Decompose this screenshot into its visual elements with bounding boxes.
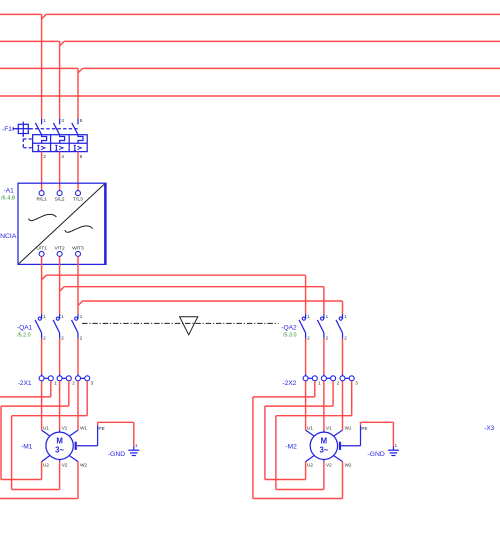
breaker F1 pole 2 contact blade <box>53 123 59 135</box>
contactor QA1 pole 2 fixed contact <box>56 317 59 320</box>
motor M1 circle <box>46 432 73 459</box>
svg-text:1: 1 <box>54 381 57 386</box>
wire L3 power rail <box>0 67 78 69</box>
motor M1 terminal U1 <box>42 430 50 436</box>
wire M1 loop B3-V2 <box>86 381 88 416</box>
motor M1 terminal W2 <box>69 456 78 462</box>
terminal 2X2:2 circles <box>323 374 325 376</box>
svg-text:V2: V2 <box>326 462 332 467</box>
mechanical interlock dash-dot link QA1-QA2 <box>82 322 279 324</box>
svg-text:PE: PE <box>361 426 367 431</box>
motor M1 terminal V1 <box>59 430 61 432</box>
motor M2 terminal U1 <box>306 430 315 436</box>
svg-text:1: 1 <box>61 314 64 319</box>
svg-text:V1: V1 <box>326 426 332 431</box>
svg-text:/5.2.0: /5.2.0 <box>17 332 31 338</box>
svg-text:U1: U1 <box>307 426 313 431</box>
svg-text:1: 1 <box>43 118 46 123</box>
svg-text:V/T2: V/T2 <box>55 246 65 252</box>
wire A1 output V/T2 down <box>59 257 61 314</box>
breaker F1 operator handle box <box>12 127 14 130</box>
wire M1 loop B2-U2 <box>68 381 70 406</box>
svg-text:/5.3.0: /5.3.0 <box>283 332 297 338</box>
svg-text:-GND: -GND <box>108 451 125 458</box>
svg-text:1: 1 <box>307 314 310 319</box>
wire N power rail <box>0 95 500 97</box>
contactor QA2 pole 2 blade <box>317 320 324 333</box>
svg-text:S/L2: S/L2 <box>55 197 65 203</box>
svg-text:-A1: -A1 <box>4 187 15 194</box>
wire tap L3 to F1 pin 5 <box>78 68 83 72</box>
wire M2 loop B3-V2 <box>351 381 353 416</box>
svg-text:V2: V2 <box>62 462 68 467</box>
svg-text:-2X1: -2X1 <box>18 380 32 387</box>
terminal 2X1:1 circles <box>41 374 43 376</box>
converter A1 box <box>18 183 106 264</box>
svg-text:-GND: -GND <box>367 451 384 458</box>
motor M2 PE bar <box>339 442 341 450</box>
svg-text:M: M <box>56 436 63 445</box>
mechanical interlock triangle symbol <box>180 317 198 335</box>
svg-text:/6.4.8: /6.4.8 <box>1 196 15 202</box>
converter A1 input terminal R/L1 <box>39 191 44 196</box>
svg-text:T/L3: T/L3 <box>73 197 83 203</box>
motor M2 terminal V1 <box>323 430 325 432</box>
svg-text:3: 3 <box>91 381 94 386</box>
svg-text:5: 5 <box>80 118 83 123</box>
svg-text:1: 1 <box>395 443 398 448</box>
wire QA2 pole 3 to terminal <box>342 339 344 374</box>
svg-text:2: 2 <box>61 335 64 340</box>
svg-text:R/L1: R/L1 <box>37 197 47 203</box>
wire L2 power rail <box>0 40 60 42</box>
wire M2 W1 feed <box>342 381 344 430</box>
converter A1 input AC sine symbol <box>29 214 57 220</box>
breaker F1 pole 2 magnetic trip I> <box>55 145 57 150</box>
motor M2 terminal V2 <box>323 460 325 462</box>
svg-text:3: 3 <box>355 381 358 386</box>
contactor QA1 pole 1 pin 1 stub <box>41 314 43 319</box>
motor M2 circle <box>310 432 337 459</box>
svg-text:-M1: -M1 <box>21 444 33 451</box>
contactor QA2 pole 2 pin 2 stub <box>323 333 325 339</box>
svg-text:U1: U1 <box>43 426 49 431</box>
breaker F1 pole 1 pin 1 stub <box>41 119 43 125</box>
svg-text:U2: U2 <box>43 462 49 467</box>
contactor QA1 pole 1 pin 2 stub <box>41 333 43 339</box>
contactor QA1 pole 3 pin 2 stub <box>77 333 79 339</box>
svg-text:PE: PE <box>99 426 105 431</box>
wire branch V to QA2 pole 2 <box>60 287 65 292</box>
motor M2 terminal W2 <box>334 456 343 462</box>
terminal 2X2:3 circles <box>342 374 344 376</box>
terminal 2X2:1 circles <box>305 374 307 376</box>
wire QA2 pole 2 to terminal <box>323 339 325 374</box>
svg-text:-X3: -X3 <box>484 425 494 432</box>
contactor QA2 pole 3 pin 2 stub <box>342 333 344 339</box>
contactor QA2 pole 3 blade <box>336 320 343 333</box>
wire branch U to QA2 pole 1 <box>42 275 47 280</box>
converter A1 input terminal S/L2 <box>57 191 62 196</box>
motor M1 terminal V2 <box>59 460 61 462</box>
terminal 2X1:3 circles <box>77 374 79 376</box>
svg-text:W1: W1 <box>80 426 87 431</box>
wire tap L1 to F1 pin 1 <box>42 14 47 18</box>
breaker F1 mechanical linkage dashed <box>30 128 80 130</box>
svg-text:2: 2 <box>72 381 75 386</box>
breaker F1 pole 3 magnetic trip I> <box>74 145 76 150</box>
wire QA1 pole 2 to terminal <box>59 339 61 374</box>
svg-text:M: M <box>321 436 328 445</box>
wire A1 output U/T1 down <box>41 257 43 314</box>
contactor QA1 pole 1 blade <box>35 320 42 333</box>
wire M2 PE to ground <box>341 445 360 447</box>
svg-text:-F1: -F1 <box>2 126 12 133</box>
svg-text:3~: 3~ <box>55 446 64 455</box>
wire M1 W1 feed <box>77 381 79 430</box>
wire M2 loop B2-U2 <box>332 381 334 406</box>
motor M1 PE bar <box>75 442 77 450</box>
contactor QA1 pole 2 pin 2 stub <box>59 333 61 339</box>
breaker F1 pole 1 contact blade <box>35 123 41 135</box>
svg-text:-M2: -M2 <box>285 444 297 451</box>
contactor QA1 pole 2 blade <box>53 320 60 333</box>
wire F1 pin 6 to converter A1 <box>77 152 79 191</box>
contactor QA2 pole 3 fixed contact <box>339 317 342 320</box>
converter A1 output AC sine symbol <box>65 226 93 232</box>
motor M2 terminal W1 <box>334 430 343 436</box>
svg-text:W/T3: W/T3 <box>72 246 84 252</box>
wire F1 pin 2 to converter A1 <box>41 152 43 191</box>
wire M1 V1 feed <box>59 381 61 430</box>
motor M2 terminal U2 <box>306 456 315 462</box>
contactor QA2 pole 1 fixed contact <box>302 317 305 320</box>
wire QA1 pole 3 to terminal <box>77 339 79 374</box>
wire M2 V1 feed <box>323 381 325 430</box>
wire L1 power rail <box>0 13 42 15</box>
breaker F1 pole 2 pin 3 stub <box>59 119 61 125</box>
contactor QA1 pole 3 pin 1 stub <box>77 314 79 319</box>
svg-text:2: 2 <box>337 381 340 386</box>
contactor QA1 pole 2 pin 1 stub <box>59 314 61 319</box>
breaker F1 trip unit box <box>33 135 88 152</box>
wire M1 U1 feed <box>41 381 43 430</box>
svg-text:1: 1 <box>80 314 83 319</box>
contactor QA1 pole 3 blade <box>72 320 79 333</box>
breaker F1 pole 3 thermal overload hook <box>78 135 83 144</box>
terminal 2X1:2 circles <box>59 374 61 376</box>
svg-text:2: 2 <box>326 335 329 340</box>
svg-text:-QA2: -QA2 <box>281 324 297 331</box>
contactor QA2 pole 1 blade <box>299 320 306 333</box>
wire M2 loop B1-W2 <box>314 381 316 397</box>
svg-text:U/T1: U/T1 <box>36 246 47 252</box>
contactor QA1 pole 1 fixed contact <box>38 317 41 320</box>
converter A1 diagonal <box>19 184 105 264</box>
breaker F1 pole 3 pin 5 stub <box>77 119 79 125</box>
breaker F1 pole 2 thermal overload hook <box>60 135 65 144</box>
svg-text:-QA1: -QA1 <box>17 324 33 331</box>
svg-text:2: 2 <box>344 335 347 340</box>
svg-text:W2: W2 <box>80 462 87 467</box>
contactor QA2 pole 2 pin 1 stub <box>323 314 325 319</box>
svg-text:1: 1 <box>344 314 347 319</box>
wire tap L2 to F1 pin 3 <box>60 41 65 45</box>
wire QA2 pole 1 to terminal <box>305 339 307 374</box>
contactor QA2 pole 1 pin 1 stub <box>305 314 307 319</box>
breaker F1 pole 1 magnetic trip I> <box>37 145 39 150</box>
contactor QA2 pole 2 fixed contact <box>321 317 324 320</box>
svg-text:2: 2 <box>307 335 310 340</box>
contactor QA1 pole 3 fixed contact <box>75 317 78 320</box>
breaker F1 pole 1 thermal overload hook <box>42 135 47 144</box>
converter A1 input terminal T/L3 <box>76 191 81 196</box>
svg-text:3: 3 <box>61 118 64 123</box>
wire A1 output W/T3 down <box>77 257 79 314</box>
wire F1 pin 4 to converter A1 <box>59 152 61 191</box>
wire QA1 pole 1 to terminal <box>41 339 43 374</box>
contactor QA2 pole 3 pin 1 stub <box>342 314 344 319</box>
breaker F1 pole 3 contact blade <box>72 123 78 135</box>
svg-text:U2: U2 <box>307 462 313 467</box>
motor M1 terminal W1 <box>69 430 78 436</box>
svg-text:POTENCIA: POTENCIA <box>0 233 17 240</box>
wire branch W to QA2 pole 3 <box>78 301 83 306</box>
svg-text:2: 2 <box>43 154 46 159</box>
svg-text:W2: W2 <box>345 462 352 467</box>
motor M1 terminal U2 <box>42 456 50 462</box>
svg-text:4: 4 <box>61 154 64 159</box>
svg-text:2: 2 <box>80 335 83 340</box>
wire M1 loop B1-W2 <box>50 381 52 397</box>
svg-text:1: 1 <box>135 443 138 448</box>
wire M2 U1 feed <box>305 381 307 430</box>
svg-text:1: 1 <box>318 381 321 386</box>
wire M1 PE to ground <box>77 445 98 447</box>
svg-text:1: 1 <box>326 314 329 319</box>
contactor QA2 pole 1 pin 2 stub <box>305 333 307 339</box>
svg-text:V1: V1 <box>62 426 68 431</box>
svg-text:-2X2: -2X2 <box>282 380 296 387</box>
svg-text:2: 2 <box>43 335 46 340</box>
svg-text:1: 1 <box>43 314 46 319</box>
svg-text:W1: W1 <box>345 426 352 431</box>
svg-text:6: 6 <box>80 154 83 159</box>
svg-text:3~: 3~ <box>319 446 328 455</box>
